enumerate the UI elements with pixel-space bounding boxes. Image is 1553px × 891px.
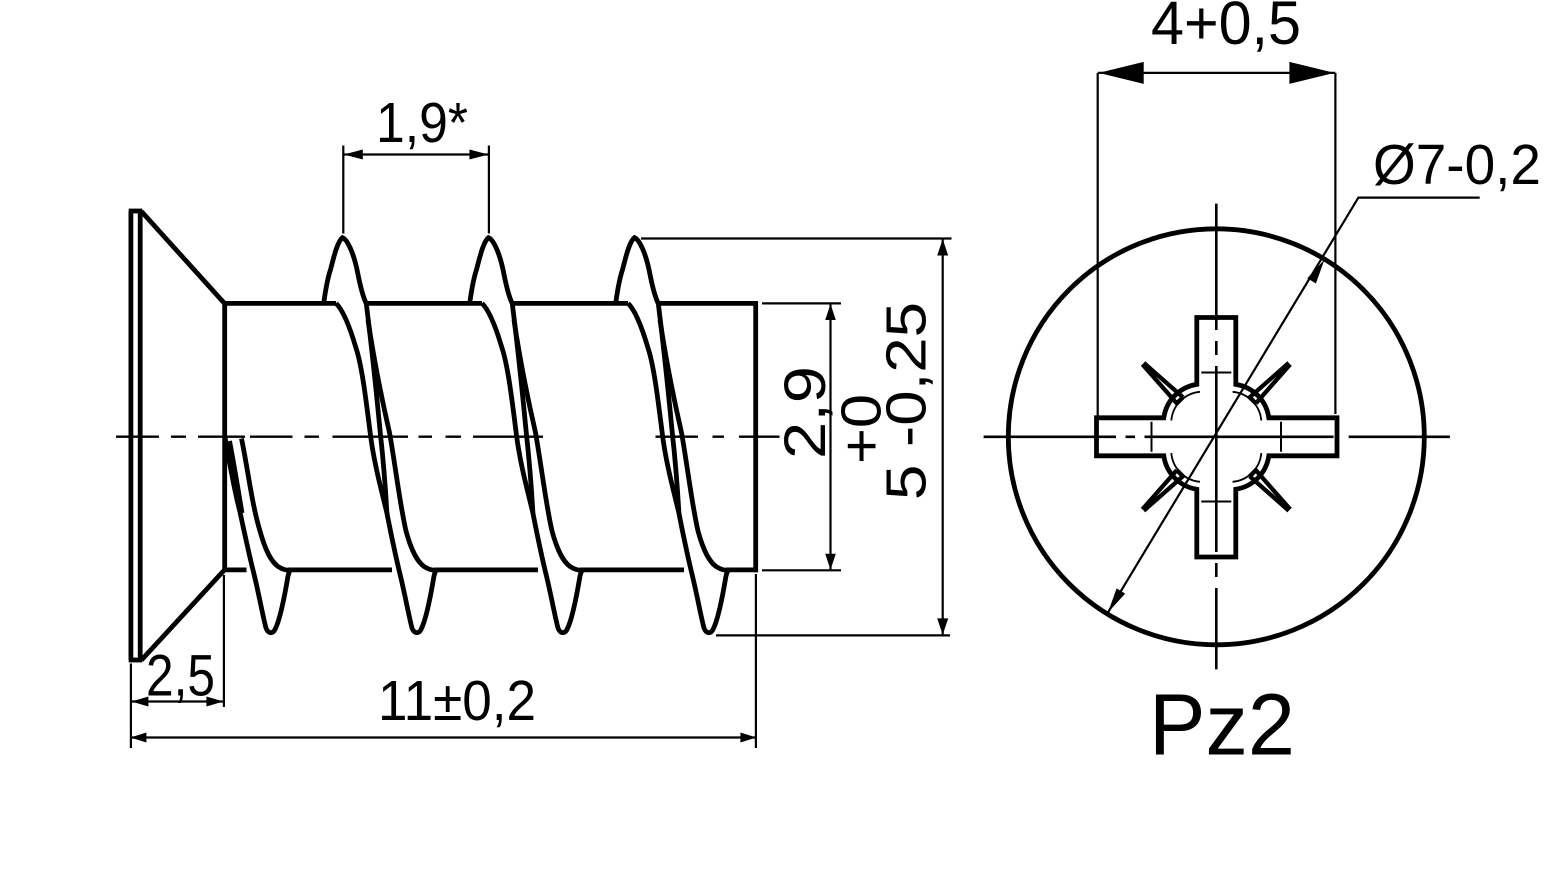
recess inner chamfer arcs bbox=[1171, 392, 1261, 482]
thread flank lines at x=488 bbox=[482, 303, 582, 632]
body bottom edge segments bbox=[225, 568, 758, 573]
thread runout lines at head bbox=[225, 437, 290, 633]
dimension 2,9 extension lines bbox=[762, 303, 841, 570]
vertical centerline front view bbox=[1215, 204, 1218, 670]
svg-text:11±0,2: 11±0,2 bbox=[378, 669, 536, 733]
dimension 2,5 line bbox=[131, 700, 224, 702]
thread crest top at x=634 bbox=[616, 238, 659, 304]
dimension 5 extension lines bbox=[641, 239, 952, 636]
head circle front view bbox=[1008, 229, 1424, 645]
flange of screw head bbox=[128, 211, 133, 660]
svg-text:Ø7-0,2: Ø7-0,2 bbox=[1373, 133, 1541, 197]
dimension 2,5 extension lines bbox=[131, 575, 224, 748]
dimension 11 line bbox=[131, 736, 756, 738]
thread crest top at x=342 bbox=[324, 238, 367, 304]
svg-text:2,9: 2,9 bbox=[773, 366, 838, 459]
horizontal centerline front view bbox=[984, 435, 1450, 438]
thread crest top at x=488 bbox=[470, 238, 513, 304]
svg-text:2,5: 2,5 bbox=[146, 644, 215, 709]
centerline of side view bbox=[116, 436, 780, 438]
svg-text:+0: +0 bbox=[830, 394, 894, 464]
countersunk cone bottom bbox=[142, 570, 225, 660]
dimension 5 line bbox=[942, 239, 944, 636]
dimension 2,9 line bbox=[829, 303, 831, 570]
body right edge bbox=[753, 301, 758, 572]
dimension 1,9 line bbox=[343, 153, 489, 155]
diameter 7 leader line bbox=[1108, 198, 1480, 613]
svg-text:4+0,5: 4+0,5 bbox=[1151, 0, 1301, 57]
dimension 11 extension line right bbox=[755, 574, 757, 748]
countersunk cone top bbox=[142, 212, 225, 304]
svg-text:Pz2: Pz2 bbox=[1149, 677, 1295, 774]
body top edge segments bbox=[225, 301, 758, 306]
thread flank lines at x=634 bbox=[628, 303, 728, 632]
pozidriv identification ticks bbox=[1250, 363, 1291, 404]
dimension 1,9 pitch extension lines bbox=[343, 146, 489, 234]
dimension 4+0,5 extension lines bbox=[1098, 73, 1336, 418]
recess depth step lines bbox=[1152, 373, 1282, 502]
body left edge bbox=[222, 302, 227, 572]
dimension 4+0,5 line bbox=[1098, 72, 1336, 74]
svg-text:1,9*: 1,9* bbox=[376, 91, 468, 155]
thread flank lines at x=342 bbox=[336, 303, 436, 632]
pozidriv recess outline bbox=[1097, 318, 1338, 558]
